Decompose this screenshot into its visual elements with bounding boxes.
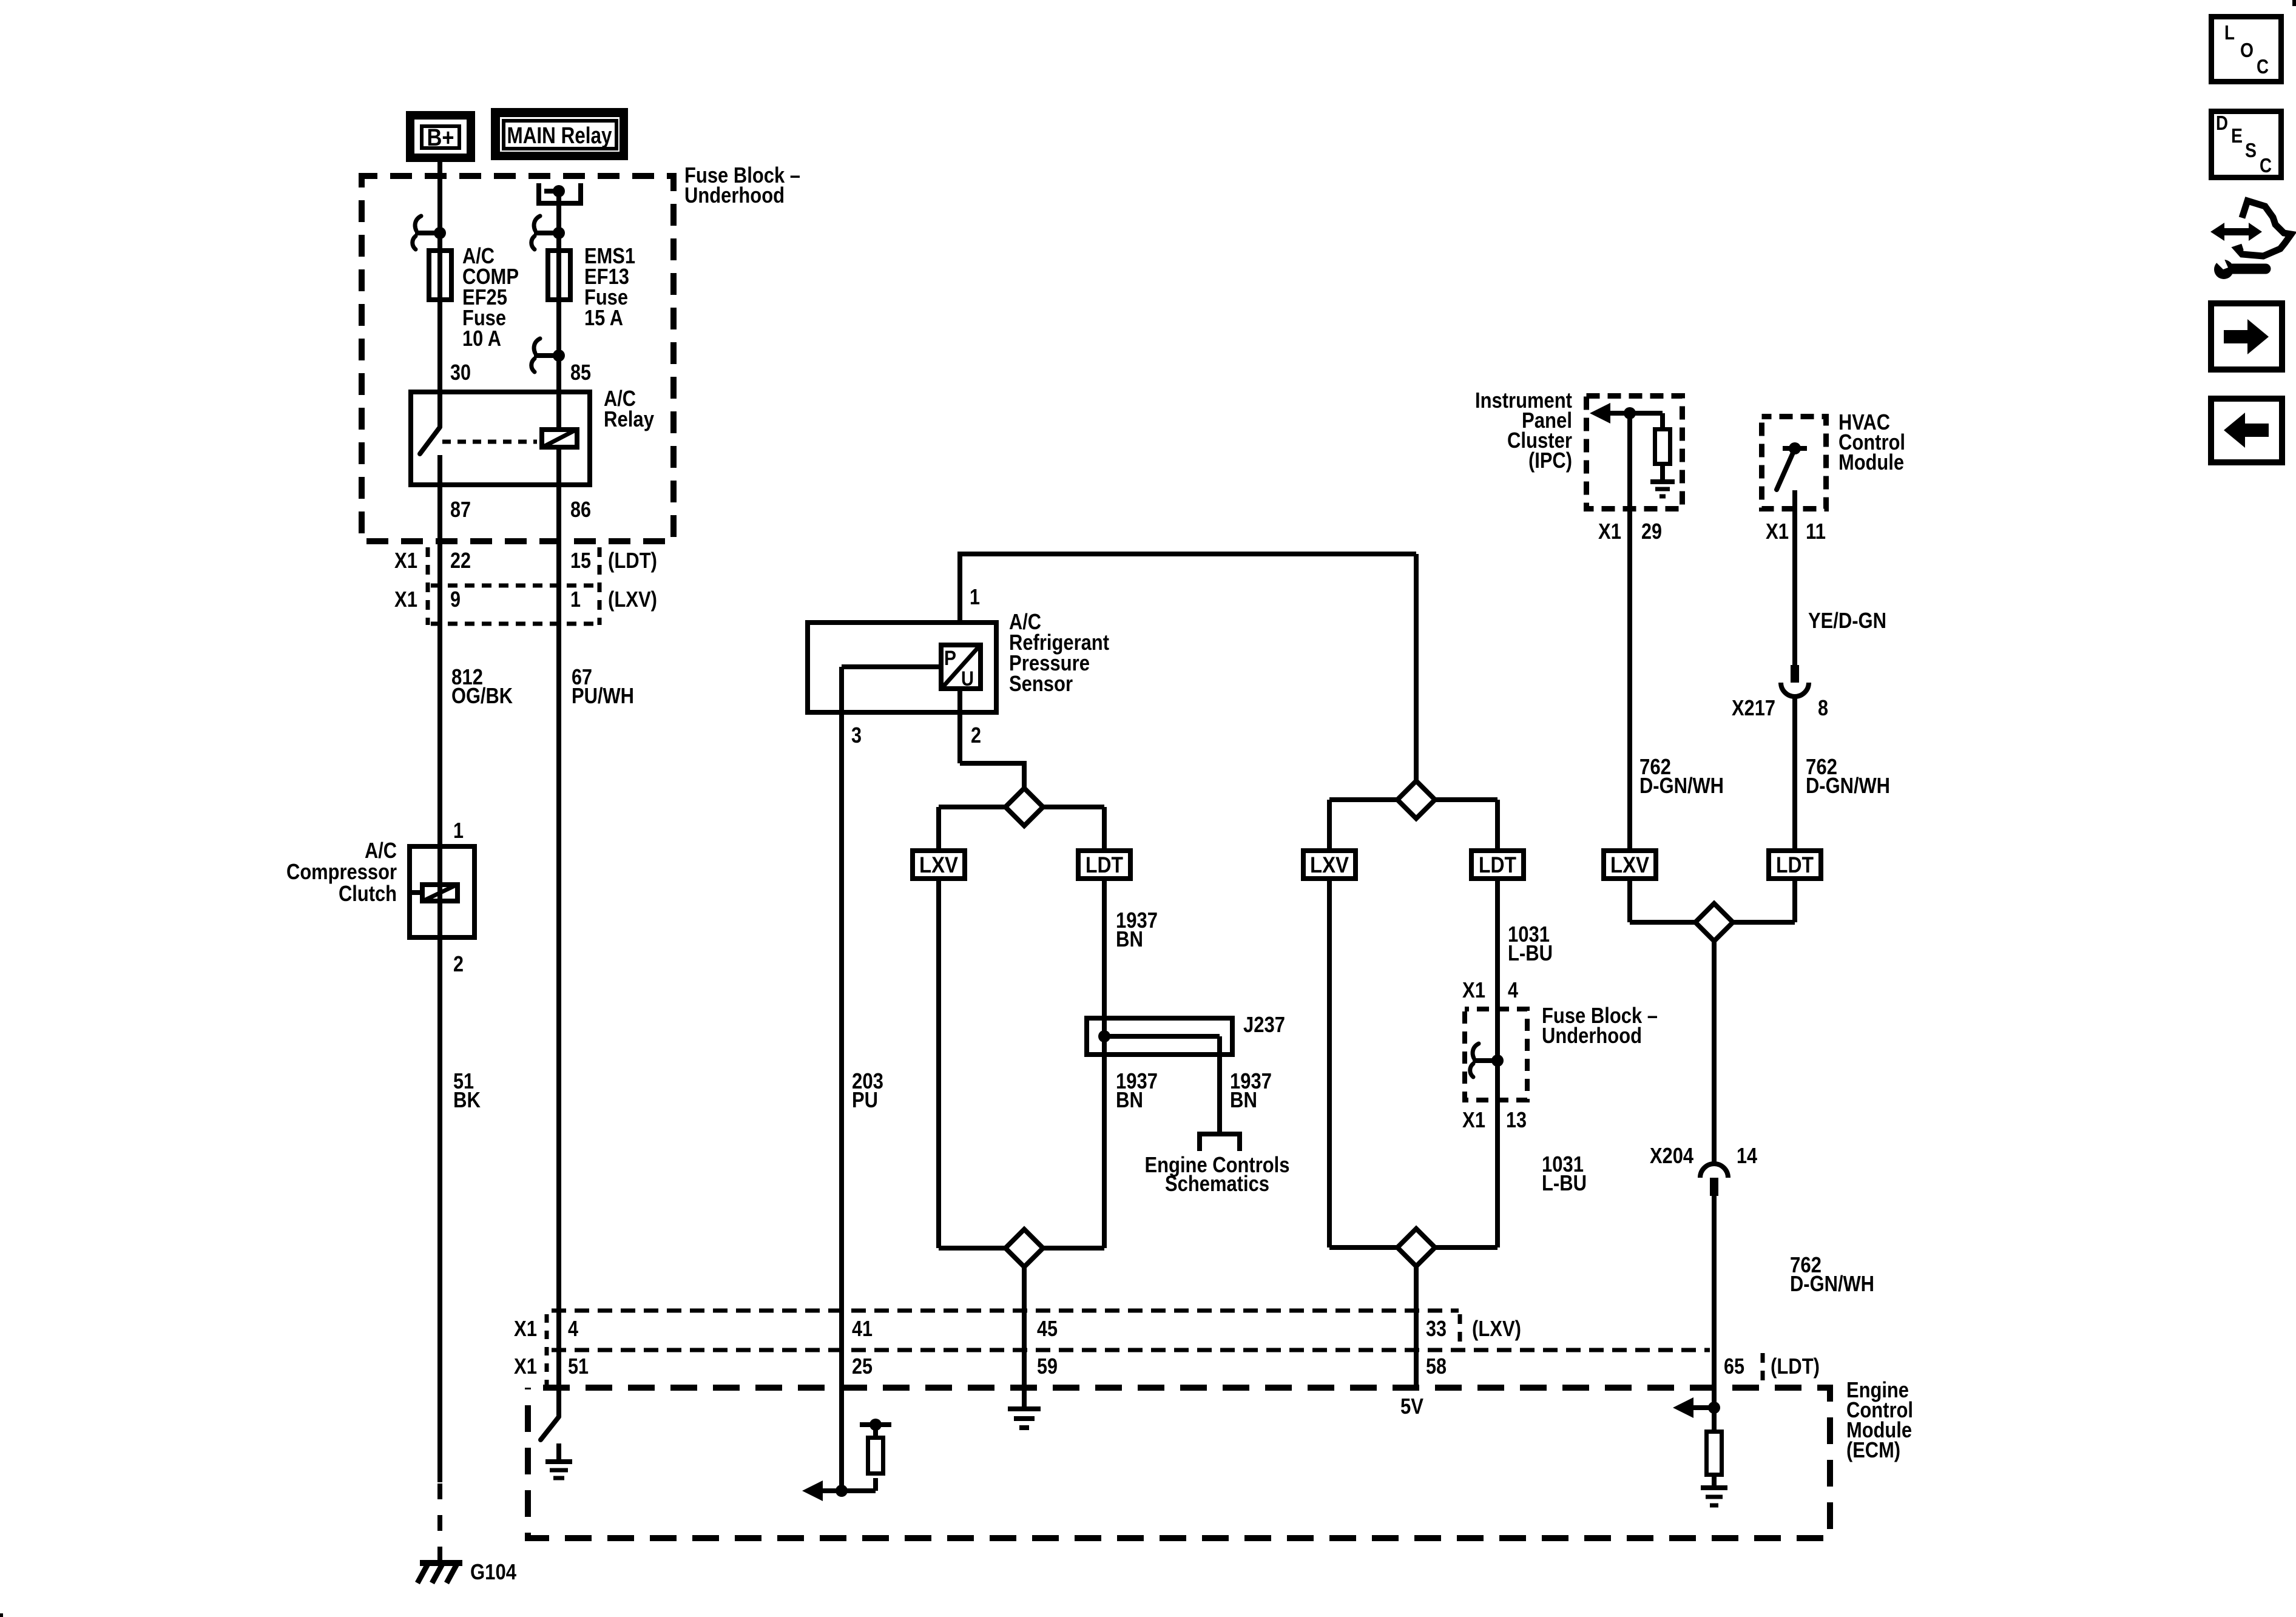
wire bus bar to EMS1 fuse: [556, 191, 561, 251]
svg-text:BN: BN: [1116, 927, 1143, 951]
svg-text:B+: B+: [427, 124, 454, 151]
svg-text:15: 15: [570, 548, 591, 573]
svg-text:1: 1: [970, 584, 980, 609]
svg-text:D-GN/WH: D-GN/WH: [1806, 773, 1890, 798]
icon vehicle wiring: [2210, 223, 2262, 241]
wire relay 86 down to ECM: [556, 487, 561, 1417]
svg-text:X1: X1: [514, 1316, 537, 1341]
svg-text:15 A: 15 A: [584, 305, 623, 330]
svg-text:Underhood: Underhood: [684, 183, 785, 208]
svg-text:BN: BN: [1230, 1087, 1257, 1112]
pressure sensor box: [808, 623, 996, 712]
svg-text:LXV: LXV: [919, 852, 958, 877]
wire diamond1 left: [939, 805, 1005, 809]
icon back arrow box: [2211, 399, 2282, 462]
wire sensor pin 3 down 203 PU: [839, 667, 844, 1491]
ECM row separators left: [545, 1314, 549, 1385]
wire through clutch: [437, 844, 442, 940]
wire diamond4 to ECM 5V: [1414, 1266, 1419, 1385]
wire LXV3 to diamond5: [1627, 881, 1632, 922]
svg-text:X204: X204: [1650, 1143, 1693, 1168]
ECM resistor wire C: [868, 1438, 883, 1474]
svg-text:(LDT): (LDT): [1771, 1354, 1820, 1379]
J237 splice pack box: [1087, 1018, 1232, 1055]
svg-text:Sensor: Sensor: [1009, 671, 1073, 696]
svg-text:4: 4: [1508, 977, 1518, 1002]
svg-text:87: 87: [450, 497, 471, 522]
svg-text:X1: X1: [394, 548, 417, 573]
LDT box 3: [1769, 851, 1821, 879]
fuse holder clip wire A: [415, 216, 421, 231]
svg-text:58: 58: [1426, 1354, 1447, 1379]
svg-text:(ECM): (ECM): [1846, 1437, 1900, 1462]
ECM resistor wire F: [1712, 1408, 1717, 1432]
svg-text:85: 85: [570, 360, 591, 385]
svg-text:D-GN/WH: D-GN/WH: [1639, 773, 1724, 798]
ECM row line LXV: [549, 1309, 1459, 1313]
fuse holder clip wire B lower: [534, 339, 540, 353]
icon DESC box: [2212, 112, 2281, 178]
HVAC switch: [1783, 446, 1807, 451]
splice diamond bottom left: [1005, 1229, 1043, 1267]
svg-text:C: C: [2257, 55, 2269, 78]
wire J237 down: [1102, 1057, 1107, 1248]
wire HVAC to X217: [1792, 490, 1797, 665]
wire IPC to LXV3: [1627, 413, 1632, 848]
svg-text:25: 25: [852, 1354, 873, 1379]
svg-text:P: P: [944, 647, 956, 670]
fuse holder clip wire B upper: [534, 216, 540, 231]
wire LXV2 down: [1327, 881, 1332, 1247]
ECM arrow wire C: [802, 1480, 823, 1501]
power feed MAIN Relay box: [491, 108, 628, 160]
svg-text:E: E: [2231, 124, 2243, 147]
svg-text:(LXV): (LXV): [1472, 1316, 1521, 1341]
A/C compressor clutch box: [410, 846, 474, 937]
svg-text:8: 8: [1818, 695, 1828, 720]
svg-text:O: O: [2240, 39, 2254, 61]
bus bar bracket wire B: [539, 183, 581, 203]
svg-text:LXV: LXV: [1310, 852, 1349, 877]
svg-text:Module: Module: [1838, 450, 1904, 474]
wire relay 87 down: [437, 487, 442, 846]
ECM junction wire F: [1673, 1397, 1693, 1418]
svg-text:13: 13: [1506, 1107, 1527, 1132]
wire X217 to LDT3: [1792, 697, 1797, 848]
svg-text:65: 65: [1724, 1354, 1744, 1379]
icon LOC box: [2212, 17, 2281, 82]
relay switch contact 30-87: [437, 390, 442, 427]
svg-text:X1: X1: [394, 587, 417, 612]
svg-text:L-BU: L-BU: [1542, 1170, 1587, 1195]
svg-text:LXV: LXV: [1610, 852, 1649, 877]
svg-text:D: D: [2216, 112, 2228, 134]
ground G104: [420, 1560, 462, 1566]
svg-text:L: L: [2224, 21, 2235, 44]
svg-text:LDT: LDT: [1479, 852, 1516, 877]
svg-text:10 A: 10 A: [462, 326, 501, 351]
splice diamond 4: [1397, 1229, 1435, 1266]
ECM row line LDT: [549, 1348, 1710, 1352]
splice diamond 1: [1005, 788, 1043, 826]
wire sensor pin 1 top: [957, 556, 962, 645]
LXV box 3: [1604, 851, 1656, 879]
connector row separators right: [598, 547, 602, 625]
svg-text:1: 1: [453, 818, 464, 843]
wire LXV1 down: [936, 881, 941, 1248]
wire LDT1 down to J237: [1102, 881, 1107, 1021]
svg-text:(LDT): (LDT): [608, 548, 657, 573]
svg-text:X1: X1: [1462, 1107, 1485, 1132]
LXV box 1: [913, 851, 965, 879]
wire diamondB to ECM ground: [1022, 1267, 1027, 1409]
svg-text:OG/BK: OG/BK: [451, 683, 513, 708]
svg-text:45: 45: [1037, 1316, 1058, 1341]
ECM row separator after 65: [1761, 1353, 1765, 1385]
ECM row separator after 33: [1458, 1314, 1462, 1349]
svg-text:PU: PU: [852, 1087, 878, 1112]
svg-text:22: 22: [450, 548, 471, 573]
svg-text:1: 1: [570, 587, 581, 612]
svg-text:C: C: [2260, 154, 2272, 177]
svg-text:86: 86: [570, 497, 591, 522]
connector X217: [1791, 665, 1799, 683]
engine control module dashed box: [528, 1388, 1830, 1538]
fuse holder clip small fuse block: [1473, 1044, 1479, 1058]
svg-text:41: 41: [852, 1316, 873, 1341]
wire top to diamond2: [1414, 554, 1419, 781]
wire diamond2 right: [1435, 797, 1497, 802]
sensor interior wire pin 3: [842, 664, 941, 669]
splice diamond 2: [1397, 781, 1435, 819]
svg-text:LDT: LDT: [1086, 852, 1123, 877]
ECM ground wire B: [556, 1443, 561, 1462]
svg-text:59: 59: [1037, 1354, 1058, 1379]
svg-text:X1: X1: [1598, 519, 1621, 544]
wire diamond5 to X204: [1712, 941, 1717, 1164]
svg-text:33: 33: [1426, 1316, 1447, 1341]
svg-text:2: 2: [971, 723, 981, 748]
wire B+ to A/C COMP fuse: [437, 160, 442, 251]
svg-text:Relay: Relay: [604, 407, 654, 431]
clutch coil: [408, 890, 422, 895]
corner mark bottom left: [0, 1613, 3, 1617]
svg-text:11: 11: [1806, 519, 1826, 544]
LDT box 2: [1471, 851, 1524, 879]
J237 internal bus: [1104, 1034, 1220, 1039]
ECM ground mid: [1008, 1406, 1041, 1411]
wire fuse EF25 to relay pin 30: [437, 302, 442, 392]
connector row line LXV: [431, 622, 598, 626]
svg-text:4: 4: [568, 1316, 578, 1341]
svg-text:(LXV): (LXV): [608, 587, 657, 612]
svg-text:X217: X217: [1732, 695, 1775, 720]
A/C relay box: [411, 392, 590, 485]
off-page connector engine controls: [1200, 1134, 1240, 1151]
ECM resistor top tap: [873, 1425, 878, 1436]
svg-text:BK: BK: [453, 1087, 481, 1112]
wire sensor pin 2 to splice: [957, 691, 962, 763]
hvac control module dashed box: [1762, 417, 1826, 509]
wire LDT2 down: [1495, 881, 1500, 1247]
svg-text:BN: BN: [1116, 1087, 1143, 1112]
connector row separators left: [426, 547, 430, 625]
svg-text:S: S: [2245, 139, 2257, 161]
connector row line LDT: [431, 584, 598, 588]
wire LDT3 to diamond5: [1792, 881, 1797, 922]
svg-text:3: 3: [851, 723, 862, 748]
pressure sensor P/U symbol: [941, 645, 981, 689]
svg-text:X1: X1: [1462, 977, 1485, 1002]
splice diamond 5: [1695, 903, 1733, 941]
svg-text:Underhood: Underhood: [1542, 1023, 1642, 1048]
fuse A/C COMP EF25: [429, 251, 451, 300]
IPC resistor to ground: [1660, 413, 1665, 430]
wire X204 to ECM 65: [1712, 1196, 1717, 1408]
svg-text:Compressor: Compressor: [286, 859, 397, 884]
ECM ground wire F: [1701, 1485, 1727, 1490]
svg-text:J237: J237: [1243, 1012, 1285, 1037]
svg-text:Clutch: Clutch: [339, 881, 397, 906]
connector X204: [1700, 1164, 1728, 1178]
icon forward arrow box: [2211, 303, 2282, 370]
svg-text:YE/D-GN: YE/D-GN: [1808, 608, 1886, 633]
svg-text:D-GN/WH: D-GN/WH: [1790, 1271, 1874, 1296]
svg-text:2: 2: [453, 951, 464, 976]
svg-text:X1: X1: [514, 1354, 537, 1379]
fuse block underhood dashed box: [362, 176, 674, 541]
wire J237 to off-page: [1217, 1036, 1222, 1134]
svg-text:G104: G104: [470, 1559, 516, 1584]
svg-text:LDT: LDT: [1776, 852, 1814, 877]
svg-text:30: 30: [450, 360, 471, 385]
wire through J237: [1102, 1016, 1107, 1057]
power feed B+ box: [406, 111, 475, 162]
wire diamond1 right: [1043, 805, 1104, 809]
wire dashed to G104: [437, 1484, 442, 1565]
ECM junction wire C: [836, 1485, 848, 1497]
svg-text:5V: 5V: [1400, 1394, 1423, 1419]
relay coil: [556, 390, 561, 487]
wire diamond2 left: [1329, 797, 1397, 802]
svg-text:Schematics: Schematics: [1165, 1171, 1269, 1196]
svg-text:X1: X1: [1766, 519, 1789, 544]
LXV box 2: [1303, 851, 1356, 879]
fuse EMS1 EF13: [548, 251, 570, 300]
svg-text:14: 14: [1737, 1143, 1757, 1168]
wire EMS1 fuse to relay pin 85: [556, 302, 561, 392]
svg-text:MAIN Relay: MAIN Relay: [507, 123, 612, 149]
wire clutch to ground: [437, 940, 442, 1482]
LDT box 1: [1078, 851, 1130, 879]
svg-text:L-BU: L-BU: [1508, 940, 1553, 965]
fuse block underhood small dashed box: [1465, 1009, 1527, 1100]
relay actuation dashed link: [442, 440, 537, 444]
svg-text:U: U: [961, 667, 974, 690]
ECM switch wire B: [541, 1417, 559, 1440]
IPC arrow and junction: [1590, 403, 1610, 424]
svg-text:9: 9: [450, 587, 461, 612]
svg-text:(IPC): (IPC): [1528, 448, 1572, 473]
svg-text:PU/WH: PU/WH: [572, 683, 634, 708]
svg-text:51: 51: [568, 1354, 589, 1379]
svg-text:29: 29: [1641, 519, 1662, 544]
instrument panel cluster dashed box: [1587, 396, 1683, 509]
corner mark top right: [2292, 0, 2296, 6]
